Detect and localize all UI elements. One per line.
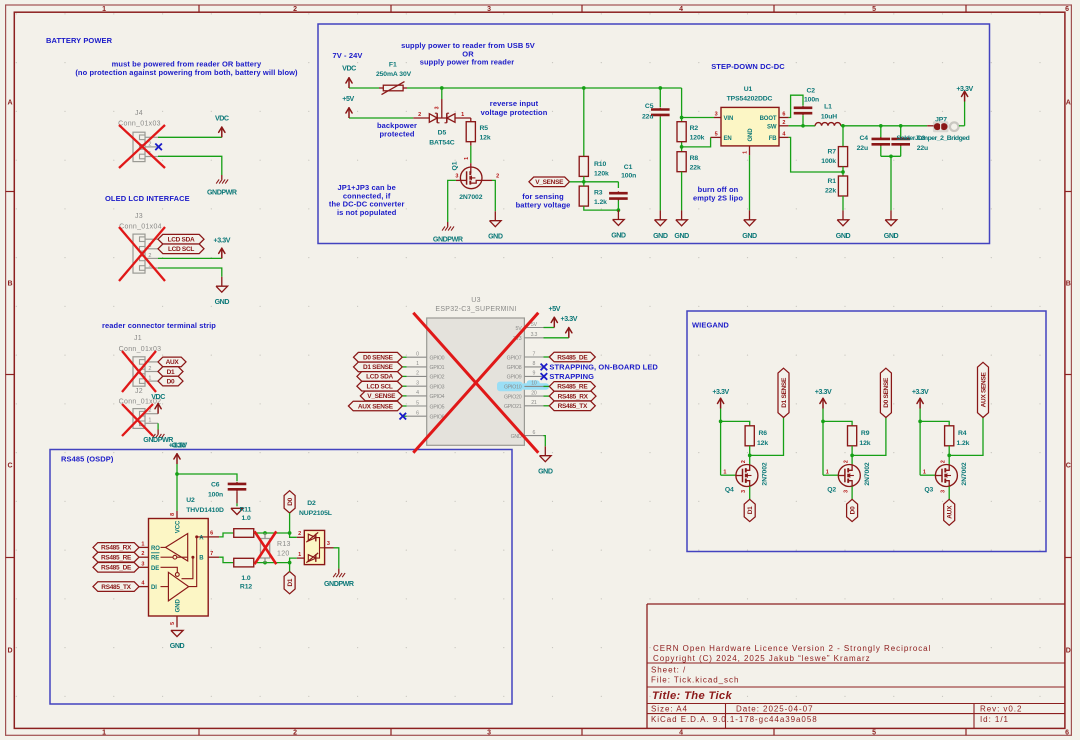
svg-text:CERN Open Hardware Licence Ver: CERN Open Hardware Licence Version 2 - S… (653, 644, 931, 653)
svg-text:VIN: VIN (724, 116, 734, 122)
svg-text:B: B (1066, 281, 1071, 288)
svg-text:C4: C4 (860, 135, 869, 142)
svg-text:+3.3V: +3.3V (912, 388, 929, 396)
svg-text:22u: 22u (857, 145, 868, 152)
svg-text:4: 4 (416, 390, 419, 396)
svg-text:WIEGAND: WIEGAND (692, 321, 729, 330)
svg-text:2: 2 (843, 460, 849, 463)
svg-text:1.0: 1.0 (242, 515, 251, 522)
svg-text:C1: C1 (624, 164, 633, 171)
svg-text:+3.3V: +3.3V (214, 237, 231, 245)
svg-text:GPIO20: GPIO20 (504, 394, 522, 400)
svg-text:0: 0 (416, 352, 419, 358)
svg-text:C: C (7, 463, 12, 470)
svg-text:R7: R7 (828, 149, 837, 156)
svg-text:AUX SENSE: AUX SENSE (358, 403, 394, 410)
svg-text:reader connector terminal stri: reader connector terminal strip (102, 321, 216, 330)
svg-text:STEP-DOWN DC-DC: STEP-DOWN DC-DC (711, 62, 785, 71)
svg-text:1.2k: 1.2k (957, 440, 970, 447)
svg-text:D0: D0 (167, 378, 175, 385)
svg-text:D5: D5 (438, 129, 447, 136)
svg-text:120k: 120k (690, 135, 705, 142)
svg-text:DI: DI (151, 585, 157, 591)
svg-text:6: 6 (1065, 729, 1069, 736)
svg-text:A: A (7, 100, 12, 107)
svg-text:OLED LCD INTERFACE: OLED LCD INTERFACE (105, 194, 190, 203)
svg-text:R13: R13 (277, 541, 291, 548)
svg-text:GND: GND (653, 232, 668, 240)
svg-text:RS485_TX: RS485_TX (558, 403, 588, 410)
svg-text:R8: R8 (690, 155, 699, 162)
svg-text:SW: SW (767, 124, 777, 130)
svg-text:J1: J1 (134, 335, 142, 342)
svg-text:AUX SENSE: AUX SENSE (980, 372, 987, 408)
svg-text:R4: R4 (958, 430, 967, 437)
svg-text:+5V: +5V (342, 95, 354, 103)
svg-text:6: 6 (416, 411, 419, 417)
svg-text:D1: D1 (747, 506, 754, 514)
svg-text:3: 3 (416, 381, 419, 387)
svg-text:GPIO5: GPIO5 (430, 404, 445, 410)
svg-text:Size: A4: Size: A4 (651, 705, 688, 714)
svg-text:20: 20 (531, 390, 537, 396)
svg-text:3: 3 (741, 490, 747, 493)
svg-text:2: 2 (293, 6, 297, 13)
svg-text:D0 SENSE: D0 SENSE (883, 377, 890, 408)
svg-text:6: 6 (210, 531, 213, 537)
svg-text:D0: D0 (287, 497, 294, 505)
svg-text:GPIO1: GPIO1 (430, 365, 445, 371)
svg-text:D1: D1 (287, 578, 294, 586)
svg-text:+3.3V: +3.3V (956, 85, 973, 93)
svg-text:22k: 22k (825, 188, 836, 195)
svg-text:GND: GND (836, 232, 851, 240)
svg-text:22u: 22u (642, 114, 653, 121)
svg-text:3.3: 3.3 (531, 332, 538, 338)
svg-text:L1: L1 (824, 104, 832, 111)
svg-text:1: 1 (102, 729, 106, 736)
svg-text:File: Tick.kicad_sch: File: Tick.kicad_sch (651, 676, 739, 685)
svg-text:D0 SENSE: D0 SENSE (363, 355, 394, 362)
svg-text:5: 5 (872, 6, 876, 13)
svg-text:RS485_TX: RS485_TX (101, 584, 131, 591)
svg-text:for sensing: for sensing (522, 192, 564, 201)
svg-text:GPIO2: GPIO2 (430, 375, 445, 381)
svg-text:1: 1 (148, 418, 151, 424)
svg-text:C2: C2 (807, 88, 816, 95)
svg-text:GPIO3: GPIO3 (430, 385, 445, 391)
svg-text:BATTERY POWER: BATTERY POWER (46, 36, 113, 45)
svg-text:(no protection against powerin: (no protection against powering from bot… (75, 68, 298, 77)
svg-text:1.2k: 1.2k (594, 199, 607, 206)
svg-text:U3: U3 (471, 297, 481, 304)
svg-text:reverse input: reverse input (490, 99, 539, 108)
svg-text:1: 1 (742, 151, 748, 154)
svg-text:RE: RE (151, 556, 159, 562)
svg-text:C5: C5 (645, 103, 654, 110)
svg-text:1: 1 (723, 469, 726, 475)
svg-text:Q1: Q1 (452, 161, 459, 170)
svg-text:+5V: +5V (549, 305, 561, 313)
svg-text:GND: GND (215, 298, 230, 306)
svg-text:2N7002: 2N7002 (459, 194, 483, 201)
svg-text:TPS54202DDC: TPS54202DDC (727, 96, 773, 103)
svg-text:2: 2 (298, 531, 301, 537)
svg-text:RS485 (OSDP): RS485 (OSDP) (61, 455, 114, 464)
svg-text:BOOT: BOOT (760, 116, 777, 122)
svg-text:RS485_RE: RS485_RE (101, 555, 132, 562)
svg-text:6: 6 (782, 112, 785, 118)
svg-text:battery voltage: battery voltage (516, 201, 571, 210)
svg-text:+3.3V: +3.3V (169, 442, 186, 450)
svg-text:7V - 24V: 7V - 24V (333, 51, 363, 60)
svg-text:R6: R6 (759, 430, 768, 437)
svg-text:NUP2105L: NUP2105L (299, 510, 332, 517)
svg-text:protected: protected (379, 130, 414, 139)
svg-text:22u: 22u (917, 145, 928, 152)
svg-text:GPIO21: GPIO21 (504, 404, 522, 410)
svg-text:DE: DE (151, 566, 159, 572)
svg-text:Sheet: /: Sheet: / (651, 666, 686, 675)
svg-text:+3.3V: +3.3V (815, 388, 832, 396)
svg-text:GND: GND (538, 468, 553, 476)
svg-text:3: 3 (843, 490, 849, 493)
svg-text:100k: 100k (821, 158, 836, 165)
svg-text:is not populated: is not populated (337, 208, 397, 217)
svg-text:burn off on: burn off on (698, 185, 739, 194)
svg-text:21: 21 (531, 400, 537, 406)
svg-text:1: 1 (141, 541, 144, 547)
svg-text:GNDPWR: GNDPWR (207, 189, 237, 197)
svg-text:2: 2 (148, 141, 151, 147)
svg-text:120: 120 (277, 551, 290, 558)
svg-text:1: 1 (148, 376, 151, 382)
svg-text:R3: R3 (594, 190, 603, 197)
svg-text:GNDPWR: GNDPWR (324, 580, 354, 588)
svg-text:GPIO7: GPIO7 (507, 355, 522, 361)
svg-text:1.0: 1.0 (241, 575, 250, 582)
svg-text:RS485_RX: RS485_RX (558, 393, 589, 400)
svg-text:FB: FB (769, 136, 778, 142)
svg-text:LCD SCL: LCD SCL (367, 384, 393, 391)
svg-text:2: 2 (148, 366, 151, 372)
svg-text:2: 2 (940, 460, 946, 463)
svg-text:GPIO8: GPIO8 (507, 365, 522, 371)
svg-text:GPIO0: GPIO0 (430, 356, 445, 362)
svg-text:2: 2 (148, 253, 151, 259)
svg-text:Id: 1/1: Id: 1/1 (980, 715, 1009, 724)
svg-text:1: 1 (461, 112, 464, 118)
svg-text:AUX: AUX (947, 505, 954, 519)
svg-text:U2: U2 (186, 497, 195, 504)
svg-text:R5: R5 (480, 125, 489, 132)
svg-text:3: 3 (141, 561, 144, 567)
svg-text:voltage protection: voltage protection (481, 108, 548, 117)
svg-text:STRAPPING: STRAPPING (549, 372, 594, 381)
svg-text:8: 8 (533, 361, 536, 367)
svg-text:1: 1 (826, 469, 829, 475)
svg-text:GPIO4: GPIO4 (430, 394, 445, 400)
svg-text:1: 1 (298, 552, 301, 558)
svg-text:100n: 100n (804, 97, 819, 104)
svg-text:2: 2 (293, 729, 297, 736)
svg-text:3: 3 (455, 174, 458, 180)
svg-text:GND: GND (611, 232, 626, 240)
svg-text:D2: D2 (307, 500, 316, 507)
svg-text:1: 1 (416, 361, 419, 367)
svg-text:U1: U1 (744, 86, 753, 93)
svg-text:AUX: AUX (166, 359, 180, 366)
svg-text:250mA 30V: 250mA 30V (376, 71, 412, 78)
svg-text:J2: J2 (135, 388, 143, 395)
svg-text:GND: GND (170, 642, 185, 650)
svg-text:5: 5 (416, 400, 419, 406)
svg-text:5: 5 (715, 132, 718, 138)
svg-text:D1 SENSE: D1 SENSE (363, 364, 394, 371)
svg-text:1: 1 (923, 469, 926, 475)
svg-text:LCD SDA: LCD SDA (168, 237, 195, 244)
svg-text:KiCad E.D.A. 9.0.1-178-gc44a39: KiCad E.D.A. 9.0.1-178-gc44a39a058 (651, 715, 818, 724)
svg-text:J4: J4 (135, 110, 143, 117)
svg-text:VDC: VDC (342, 65, 356, 73)
svg-text:RS485_DE: RS485_DE (557, 354, 588, 361)
svg-text:+3.3V: +3.3V (561, 315, 578, 323)
svg-text:10: 10 (531, 381, 537, 387)
svg-text:GNDPWR: GNDPWR (433, 236, 463, 244)
svg-text:GND: GND (748, 128, 754, 142)
svg-text:+3.3V: +3.3V (712, 388, 729, 396)
svg-text:D0: D0 (849, 506, 856, 514)
svg-text:2N7002: 2N7002 (864, 462, 871, 486)
svg-text:C: C (1066, 463, 1071, 470)
svg-text:B: B (7, 281, 12, 288)
svg-text:BAT54C: BAT54C (429, 140, 455, 147)
svg-text:2: 2 (141, 551, 144, 557)
svg-text:3: 3 (487, 6, 491, 13)
svg-text:Rev: v0.2: Rev: v0.2 (980, 705, 1022, 714)
svg-text:1: 1 (464, 157, 470, 160)
svg-text:VCC: VCC (175, 520, 181, 533)
svg-text:VDC: VDC (151, 393, 165, 401)
svg-text:8: 8 (170, 513, 176, 516)
svg-text:R1: R1 (828, 178, 837, 185)
svg-text:2N7002: 2N7002 (961, 462, 968, 486)
svg-text:12k: 12k (480, 135, 491, 142)
svg-text:GND: GND (175, 599, 181, 613)
svg-text:120k: 120k (594, 170, 609, 177)
svg-text:6: 6 (533, 430, 536, 436)
svg-text:V_SENSE: V_SENSE (535, 179, 564, 186)
svg-text:STRAPPING, ON-BOARD LED: STRAPPING, ON-BOARD LED (549, 362, 658, 371)
svg-text:1: 1 (102, 6, 106, 13)
svg-text:EN: EN (724, 136, 732, 142)
svg-text:RS485_RX: RS485_RX (101, 545, 132, 552)
svg-text:GPIO10: GPIO10 (504, 385, 522, 391)
svg-text:C6: C6 (211, 481, 220, 488)
svg-text:Conn_01x04: Conn_01x04 (119, 223, 162, 230)
svg-text:RS485_DE: RS485_DE (101, 565, 132, 572)
svg-text:10uH: 10uH (821, 114, 837, 121)
svg-text:LCD SDA: LCD SDA (366, 374, 393, 381)
svg-text:ESP32-C3_SUPERMINI: ESP32-C3_SUPERMINI (435, 306, 516, 313)
svg-text:4: 4 (679, 6, 683, 13)
svg-text:THVD1410D: THVD1410D (186, 507, 224, 514)
svg-text:3: 3 (715, 112, 718, 118)
svg-text:6: 6 (1065, 6, 1069, 13)
svg-text:A: A (1066, 100, 1071, 107)
svg-text:Q3: Q3 (924, 486, 933, 493)
svg-text:Q2: Q2 (827, 486, 836, 493)
svg-text:R12: R12 (240, 584, 252, 591)
svg-text:3: 3 (487, 729, 491, 736)
svg-text:J3: J3 (135, 213, 143, 220)
svg-text:empty 2S lipo: empty 2S lipo (693, 194, 743, 203)
svg-text:4: 4 (679, 729, 683, 736)
svg-text:RO: RO (151, 546, 160, 552)
svg-text:2: 2 (741, 460, 747, 463)
svg-text:7: 7 (533, 351, 536, 357)
svg-text:2: 2 (782, 120, 785, 126)
svg-text:2: 2 (418, 112, 421, 118)
svg-text:GPIO9: GPIO9 (507, 375, 522, 381)
svg-text:R2: R2 (690, 125, 699, 132)
svg-text:GND: GND (488, 233, 503, 241)
svg-text:GND: GND (884, 232, 899, 240)
svg-text:2: 2 (416, 371, 419, 377)
svg-text:LCD SCL: LCD SCL (168, 246, 194, 253)
svg-text:100n: 100n (621, 173, 636, 180)
svg-text:12k: 12k (859, 440, 870, 447)
svg-text:3: 3 (435, 106, 441, 109)
svg-text:GND: GND (742, 232, 757, 240)
svg-text:Date: 2025-04-07: Date: 2025-04-07 (736, 705, 813, 714)
svg-text:SolderJumper_2_Bridged: SolderJumper_2_Bridged (897, 135, 970, 142)
svg-text:GND: GND (674, 232, 689, 240)
svg-text:RS485_RE: RS485_RE (557, 384, 588, 391)
svg-text:100n: 100n (208, 492, 223, 499)
svg-text:R9: R9 (861, 430, 870, 437)
svg-text:D: D (7, 648, 12, 655)
svg-text:F1: F1 (389, 62, 397, 69)
svg-text:5V: 5V (531, 322, 538, 328)
svg-text:supply power from reader: supply power from reader (420, 58, 515, 67)
svg-text:2N7002: 2N7002 (762, 462, 769, 486)
svg-text:Conn_01x03: Conn_01x03 (118, 121, 161, 128)
svg-text:D1: D1 (167, 369, 175, 376)
svg-text:2: 2 (496, 174, 499, 180)
svg-text:5: 5 (872, 729, 876, 736)
svg-text:R10: R10 (594, 161, 606, 168)
svg-text:9: 9 (533, 371, 536, 377)
svg-text:VDC: VDC (215, 114, 229, 122)
svg-text:Copyright (C) 2024, 2025 Jakub: Copyright (C) 2024, 2025 Jakub “leswe” K… (653, 654, 871, 663)
svg-text:Q4: Q4 (725, 486, 734, 493)
svg-text:D: D (1066, 648, 1071, 655)
svg-text:5: 5 (170, 622, 176, 625)
svg-text:3: 3 (327, 541, 330, 547)
svg-text:Title: The Tick: Title: The Tick (652, 690, 732, 702)
svg-text:D1 SENSE: D1 SENSE (781, 377, 788, 408)
svg-text:7: 7 (210, 551, 213, 557)
svg-text:22k: 22k (690, 164, 701, 171)
svg-text:R11: R11 (240, 507, 252, 514)
svg-text:12k: 12k (757, 440, 768, 447)
svg-text:3: 3 (940, 490, 946, 493)
svg-text:V_SENSE: V_SENSE (367, 393, 396, 400)
